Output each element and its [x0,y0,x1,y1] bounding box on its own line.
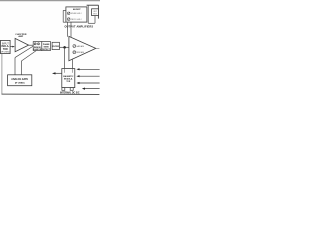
svg-text:TOR: TOR [66,81,71,83]
wire junction to magnetic modulator [64,47,66,68]
svg-text:(IF USED): (IF USED) [1,52,11,54]
box U8 analog gate [8,75,32,86]
wire adj box to A2 right [70,22,72,37]
wire chopper to demodulator [29,44,34,46]
box U2 demodulator section A [33,42,42,51]
pot R4 zero adjust [67,18,81,21]
box U1 input isolator [1,40,11,53]
node J1 junction dot [63,46,66,49]
svg-text:OUT: OUT [93,11,96,13]
wire modulator feed arrow [52,72,62,74]
enclosure border top-right [87,4,99,6]
wire gate lead 1 [14,58,16,75]
amp A1 chopper amp label [15,34,27,38]
svg-text:MAGNETIC: MAGNETIC [63,75,74,78]
box U5 adjustment box [66,7,87,22]
wire supply arrow 1 [76,68,99,70]
wire A2 bottom to modulator [71,59,73,69]
pot R1 gain adjust inside A2 [73,45,84,48]
enclosure border left [1,53,3,94]
wire horizontal link [88,22,95,24]
svg-text:OUTPUT AMPLIFIERS: OUTPUT AMPLIFIERS [65,26,94,29]
svg-text:FILTER: FILTER [52,46,59,48]
wire supply arrow 2 [76,75,99,77]
terminal T2 [70,88,73,91]
wire A2 output [96,47,100,49]
wire gate lead 2 [20,61,22,75]
svg-text:TOR: TOR [3,49,8,51]
wire filter to output amp [59,46,69,48]
wire supply arrow 3 [76,82,99,84]
svg-text:ISOLA-: ISOLA- [1,45,9,48]
amp A1 chopper triangle [15,38,29,51]
wire adj box to A2 left [66,22,68,37]
wire supply arrow 4 [82,88,100,90]
wire gate diagonal 1 [15,46,33,58]
svg-text:ANALOG GATE: ANALOG GATE [11,78,28,81]
svg-text:(IF USED): (IF USED) [15,82,25,84]
box U3 demodulator section B [42,42,51,51]
svg-text:MODULA-: MODULA- [64,78,73,81]
box U4 filter [52,42,59,49]
box U7 magnetic modulator [62,69,75,88]
enclosure border right [97,5,99,18]
terminal T1 [62,88,65,91]
wire isolator to chopper with arrow [10,46,15,48]
box U6 output terminal [92,9,99,16]
wire adj box left bracket [63,10,66,22]
amp A2 output amplifier triangle [69,36,96,60]
wire gate diagonal 2 [21,51,36,61]
svg-text:ULATOR: ULATOR [34,48,42,51]
pot R2 zero adjust inside A2 [73,51,84,54]
pot R3 span adjust [67,12,81,15]
wire vertical link [87,5,89,23]
svg-text:ADJUST: ADJUST [73,8,81,11]
svg-text:INTERNAL DC S/C: INTERNAL DC S/C [60,91,80,94]
svg-text:PUT: PUT [93,13,96,15]
svg-text:AMP: AMP [18,35,23,38]
enclosure border bottom [2,93,100,95]
svg-text:INPUT: INPUT [2,43,9,45]
svg-text:DETECT: DETECT [42,49,50,51]
wire output terminal drop [94,16,96,24]
